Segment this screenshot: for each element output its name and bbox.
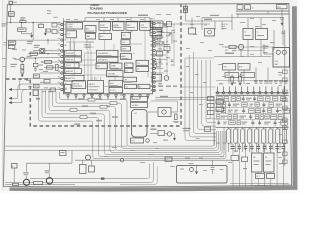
supply rail top right double line [236, 10, 289, 12]
wire bus: nested dogleg routes [39, 89, 226, 159]
line delay label [225, 53, 234, 55]
U1 block: apc [85, 26, 96, 33]
wire right corner down [281, 9, 283, 17]
wire feed drop [214, 21, 216, 30]
Q3 network boxes [80, 165, 87, 174]
label below dashed end [183, 128, 191, 129]
U1 block: 4.43 osc [121, 40, 130, 45]
transistor Q5 [164, 76, 169, 81]
sub-circuit box with transistor [158, 108, 171, 117]
connector box on boundary [33, 90, 38, 96]
left exit wire arrow 2 [11, 84, 21, 98]
module boundary (dashed) [6, 4, 181, 126]
U1 block: luma delay [110, 63, 122, 69]
bus labels on horizontal wires [78, 98, 84, 100]
buffer block [238, 64, 250, 71]
Q2 base resistor [229, 45, 236, 48]
U1 right pins 14-29 [153, 22, 155, 91]
wires right section y47 [222, 46, 274, 48]
wire row y56.5 [214, 56, 272, 58]
U1 block: ident [99, 22, 111, 31]
crystal oscillator X1 module [273, 48, 290, 68]
wire drops to cluster [228, 70, 230, 84]
label C123 [165, 157, 172, 162]
capacitor C40 [280, 17, 284, 19]
U1 block: limiter [123, 77, 137, 82]
second network box [150, 30, 162, 36]
wires above IC [85, 17, 150, 19]
U1 block: sequencer [126, 22, 138, 31]
part below emitter resistor [21, 70, 24, 73]
U1 left pins 1-13 [61, 23, 63, 90]
fuse F2 on vertical feed [185, 4, 187, 21]
top right area labels [219, 44, 224, 45]
U1 block: acc [99, 34, 112, 40]
IC U1 TDA8395 outline [64, 21, 153, 94]
bottom right misc labels [277, 152, 281, 153]
U1 block: burst gate [121, 46, 131, 51]
long verticals between U1 and boundary [159, 23, 161, 85]
junction and drop x48 [47, 39, 48, 40]
U1 block: clamp synchronizer [65, 75, 85, 81]
cluster coil cans row (tall rounded) [227, 127, 287, 152]
wire y178 with ferrite bead [30, 178, 147, 180]
transistor Q3 bottom-left-center [86, 155, 91, 160]
U1 block: encoder [109, 80, 123, 86]
wire row y67.5 to pin 9 [44, 67, 61, 69]
U1 block: out b-y [138, 84, 150, 88]
U1 block: subcarrier regenerator [97, 50, 119, 56]
label box on main line [20, 21, 26, 23]
label 2-line under x33 wire [27, 41, 33, 42]
U1 block second text lines [67, 27, 76, 30]
osc block 4.43 [223, 64, 236, 71]
U1 internal wiring [66, 26, 148, 87]
wire pot row y50.7 [33, 50, 40, 52]
bus cross wire y58 left [185, 57, 214, 59]
wire feed horizontal [186, 20, 233, 22]
electrolytic C150 inside output box [212, 160, 214, 167]
stub wires under U1 bottom pins [68, 96, 148, 99]
big output box bottom center [177, 166, 228, 184]
box on wire x188 [189, 28, 196, 34]
boxes right of dashed area [33, 74, 39, 78]
U1 pin number labels [65, 24, 67, 25]
input parts group left edge [8, 41, 16, 45]
transistor Q7 [46, 178, 52, 184]
long wire y17.6 top right [202, 17, 283, 19]
arrow ground C40 [281, 23, 283, 25]
capacitor C22 [159, 58, 161, 66]
box on bus vertical x207 [205, 127, 211, 132]
resistor network right of U1 [157, 52, 163, 57]
scattered value labels global [193, 34, 197, 35]
label on feed [204, 19, 212, 21]
wire second row [162, 32, 173, 34]
wire row y78.5 to pin 11 [24, 78, 61, 80]
bus cross wire y87 [181, 86, 216, 88]
cluster vertical wire labels [217, 143, 220, 144]
junction circle on y160 [120, 158, 124, 162]
cluster top double rail [216, 92, 289, 94]
U1 block: shadow switch [65, 69, 82, 74]
tall box pair bottom right [252, 153, 263, 172]
transistor Q6 [23, 179, 29, 185]
label left of Q1 chain [11, 64, 18, 65]
small circle right of det block [146, 139, 150, 143]
cluster dense component zone [217, 96, 290, 126]
label mid 2-line [34, 45, 40, 46]
label MAINS in margin [2, 23, 7, 24]
band pass block above DL1 [131, 96, 148, 101]
wire X1 to left [264, 53, 273, 55]
notch filter box B [256, 29, 268, 40]
notch filter box A [243, 29, 253, 40]
labels near U1 top-left corner [47, 10, 51, 11]
U1 bottom pins [67, 94, 149, 96]
Q1 emitter resistor [21, 62, 23, 65]
resistor boxes bottom right [231, 156, 239, 161]
wire fuse down [10, 4, 12, 12]
labels inside output box [180, 169, 184, 170]
small capacitor symbols right of U1 [162, 25, 174, 62]
ground arrow under Q1 chain [21, 73, 23, 74]
resistor R15 vertical [56, 65, 59, 71]
wire across top of dashed area [155, 97, 181, 99]
U1 block: gain stage [121, 54, 132, 60]
wire row y53.7 [29, 53, 61, 55]
wire rail drop x238 [237, 14, 239, 18]
transistor Q1 [20, 57, 25, 62]
label NOTCH 4.43 above wire [210, 15, 219, 16]
transistor Q2 [238, 44, 243, 49]
component labels right of U1 [157, 22, 161, 23]
left edge of cluster boxes [216, 100, 224, 105]
Q1 base wire [15, 58, 20, 60]
U1 block: B-Y R-Y demod [109, 87, 123, 93]
wire B1 down [13, 168, 15, 185]
ground under R30 [173, 121, 179, 123]
capacitor on x283 [281, 31, 285, 33]
U1 block: pll [136, 60, 149, 65]
vertical resistor pair with grounds [231, 77, 234, 83]
left exit wire arrow 3 [11, 90, 25, 103]
terminal box B1 [12, 164, 18, 169]
U1 block: phase detector [125, 63, 134, 68]
cluster label row sparse left [219, 83, 223, 84]
cluster thin verticals between cans [224, 127, 280, 150]
varistor circle inside output box [190, 168, 194, 172]
wire y182 low route [5, 162, 153, 182]
capacitor C21 vertical [153, 62, 156, 68]
U1 block: delay [122, 32, 131, 39]
Q6 label R61 [23, 172, 29, 173]
wire drops to notch boxes [247, 18, 249, 29]
bus inline component boxes [70, 98, 117, 118]
wire top right verticals [221, 21, 223, 30]
right column parts near frame [283, 30, 288, 166]
75R input network box [150, 21, 163, 28]
wire row y84 to pin 12 [22, 83, 61, 85]
U1 block: ident detector [65, 63, 80, 68]
box on row y53.7 [30, 52, 37, 55]
wire row y62 to pin 8 [42, 61, 61, 63]
box between Q6 Q7 [34, 181, 43, 184]
cluster lower rail [216, 126, 289, 128]
U1 block: ref [140, 22, 151, 31]
box hanging from main line [40, 23, 42, 25]
U1 block: chroma control [97, 57, 119, 62]
cluster capacitor symbols row [231, 144, 285, 152]
U1 block: chroma locked loop [107, 71, 124, 77]
filter block above DL1 [131, 102, 148, 107]
boxes column left of cluster [208, 97, 215, 101]
cluster label band right [254, 80, 258, 81]
small box pair bottom right corner [256, 174, 265, 179]
cluster zone hairlines [216, 96, 289, 120]
bus wire labels [186, 66, 190, 67]
label left of X1 [263, 46, 269, 47]
Q1 label right [27, 56, 32, 57]
wire input to right section [163, 23, 210, 25]
U1 block: count down divider [66, 23, 83, 30]
arrow down inside output box [196, 166, 198, 172]
U1 block: filter2 [96, 63, 108, 69]
component box with circle x205 [205, 29, 215, 37]
U1 block: sandcastle [136, 67, 149, 72]
junction dots left column [10, 22, 49, 63]
wire row y40.1 to pin 4 [7, 39, 60, 41]
Q1 collector wire to pin [25, 56, 61, 59]
ground arrow x31.6 [31, 32, 33, 35]
vertical wire x33.1 [32, 23, 34, 41]
wire link to right riser [71, 150, 73, 163]
wire top of IC to title area [63, 18, 65, 21]
Q7 label R62 [45, 170, 51, 171]
fuse F1 at top-left corner [9, 1, 12, 4]
U1 block: decoder [72, 81, 86, 89]
U1 block: control [113, 22, 125, 31]
det block below DL1 [131, 138, 144, 143]
parts row below boundary [151, 129, 157, 131]
parts at U1 left edge top [52, 23, 57, 27]
U1 block: matrix [88, 81, 104, 94]
bus bottom lines extending to left frame [5, 145, 127, 147]
test point box TP [60, 151, 67, 156]
wire bus: vertical group to lower cluster [185, 52, 216, 141]
arrow component x45.4 with label [44, 28, 46, 32]
wire row y73 to pin 10 [40, 72, 61, 74]
left exit wire arrow 1 [11, 79, 23, 90]
resistor R20 [167, 22, 172, 27]
wire Q2 collector [240, 50, 242, 57]
wire row y89.5 to pin 13 [20, 89, 61, 91]
bus connection stubs [213, 98, 215, 147]
label row y72 [225, 73, 239, 78]
mains filter block [9, 12, 15, 17]
cluster connector dot row on rail [216, 87, 285, 94]
delay line DL1 rounded block [132, 110, 148, 138]
wire lower [150, 44, 170, 46]
wire bottom-left along frame [5, 184, 75, 186]
drop wire x21.7 with label [21, 23, 23, 28]
label pair [152, 39, 158, 40]
U1 block: ident selector [65, 57, 82, 62]
wire upper link Q6 Q7 [26, 163, 28, 172]
supply labels [237, 5, 243, 9]
ground arrows under resistor pair [231, 83, 233, 85]
U1 block: H and V ident [65, 50, 82, 56]
label above output box [185, 158, 190, 159]
resistor boxes right of U1 [157, 28, 162, 32]
wires U1 right pins to dashed boundary [155, 24, 166, 74]
small part on bottom wire [13, 183, 19, 185]
wire bottom right horizontal [230, 183, 289, 185]
U1 block: clock oscillator [66, 31, 77, 38]
wire low route 3 [120, 167, 157, 185]
wire row y80 [216, 79, 289, 81]
right column labels [279, 75, 282, 76]
wire notch outputs [247, 40, 249, 57]
verticals cluster to bottom frame [233, 152, 283, 187]
labels under Q5 [151, 86, 156, 87]
sub-circuit loop inside boundary [151, 101, 178, 112]
U1 block: out r-y [125, 84, 137, 88]
component chain right of Q1 [33, 63, 38, 67]
top right corner label [277, 5, 288, 9]
label right of filter [20, 17, 25, 18]
U1 block: bias [86, 34, 96, 40]
ident block [152, 75, 162, 82]
main horizontal line y22.5 [7, 22, 61, 24]
resistor R30 vertical [175, 114, 178, 120]
U1 block: filter [125, 68, 134, 72]
margin marks left [2, 58, 6, 59]
U1 block: sync sep [65, 85, 72, 93]
preset pot box with circle [40, 49, 45, 53]
wire filter to main line [10, 16, 12, 22]
resistor on row y62 [45, 60, 52, 63]
wire long horizontal y160 [75, 159, 230, 161]
labels near pin rows 11-13 [26, 80, 31, 81]
